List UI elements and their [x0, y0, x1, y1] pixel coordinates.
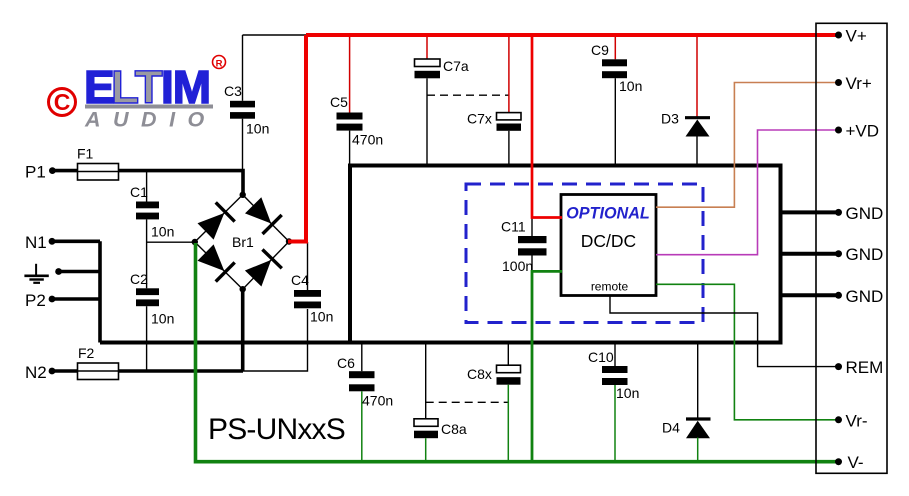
- wire orange Vr+: [656, 83, 839, 208]
- svg-text:C9: C9: [591, 42, 609, 58]
- capacitor C8x: [467, 343, 521, 461]
- svg-text:C5: C5: [330, 94, 348, 110]
- terminal GND 1: [835, 209, 842, 216]
- svg-text:V+: V+: [846, 27, 867, 46]
- logo ELTIM AUDIO: [49, 56, 226, 132]
- wire ground to rail: [59, 270, 100, 274]
- node bridge bottom: [240, 286, 246, 292]
- svg-text:C11: C11: [501, 219, 526, 235]
- wire P1 to F1: [52, 169, 78, 173]
- svg-text:D3: D3: [661, 111, 679, 127]
- svg-text:Vr-: Vr-: [846, 412, 868, 431]
- gnd bus horizontal: [100, 341, 782, 345]
- capacitor C4: [291, 242, 333, 325]
- connector block: [816, 23, 887, 473]
- capacitor C2: [130, 271, 174, 371]
- wire remote to REM: [610, 296, 839, 367]
- svg-text:D4: D4: [662, 420, 680, 436]
- svg-text:10n: 10n: [151, 311, 174, 327]
- terminal V+: [835, 32, 842, 39]
- fuse F1: [77, 146, 119, 181]
- svg-text:N1: N1: [25, 233, 47, 252]
- svg-text:P1: P1: [25, 163, 46, 182]
- svg-text:10n: 10n: [246, 121, 269, 137]
- node bridge left: [192, 239, 198, 245]
- svg-text:GND: GND: [846, 204, 884, 223]
- svg-text:C10: C10: [588, 349, 614, 365]
- svg-text:C8a: C8a: [441, 421, 467, 437]
- capacitor C8a: [414, 343, 467, 461]
- node bridge top: [240, 192, 246, 198]
- module box U1: [350, 166, 781, 343]
- svg-text:10n: 10n: [151, 224, 174, 240]
- wire N1 to gnd rail: [52, 240, 100, 244]
- node N1 dot: [49, 238, 56, 245]
- node bridge right: [286, 238, 292, 244]
- svg-text:F1: F1: [77, 146, 94, 162]
- svg-text:C6: C6: [337, 355, 355, 371]
- svg-text:C2: C2: [130, 271, 148, 287]
- svg-text:C1: C1: [130, 184, 148, 200]
- svg-text:10n: 10n: [616, 385, 639, 401]
- wire C3 top to V+ bus: [243, 34, 307, 36]
- diode D3: [661, 35, 710, 166]
- svg-text:GND: GND: [846, 287, 884, 306]
- svg-text:remote: remote: [591, 280, 629, 294]
- svg-text:470n: 470n: [352, 132, 383, 148]
- wire V- bus green: [196, 243, 839, 462]
- terminal GND 3: [835, 292, 842, 299]
- wire green C11 to DC/DC and down: [532, 271, 562, 461]
- terminal +VD: [835, 127, 842, 134]
- terminal Vr+: [835, 79, 842, 86]
- wire GND stub 1: [780, 210, 839, 214]
- svg-text:100n: 100n: [502, 258, 533, 274]
- svg-text:REM: REM: [846, 358, 884, 377]
- wire GND stub 2: [780, 252, 839, 256]
- svg-text:R: R: [216, 59, 223, 70]
- wire V+ riser red: [304, 35, 308, 242]
- svg-text:C: C: [54, 89, 71, 115]
- svg-text:C7x: C7x: [467, 111, 492, 127]
- node N2 dot: [49, 368, 56, 375]
- node P1 dot: [49, 167, 56, 174]
- dc/dc module box: [561, 195, 656, 296]
- wire P2 to rail: [52, 297, 100, 301]
- diode D4: [662, 343, 711, 461]
- svg-text:GND: GND: [846, 245, 884, 264]
- node ground dot: [55, 268, 62, 275]
- fuse F2: [78, 345, 119, 380]
- wire dashed C8a-C8x option: [426, 401, 508, 403]
- bridge Br1: [195, 195, 289, 289]
- wire F1 to bridge top: [119, 171, 244, 194]
- wire N2 thin to C4: [243, 309, 308, 371]
- wire C1/C2 tee to bridge left node: [147, 241, 195, 243]
- wire bridge bottom to N2: [241, 288, 245, 371]
- svg-text:Br1: Br1: [232, 234, 254, 250]
- wire magenta +VD: [656, 130, 839, 255]
- capacitor C3: [224, 35, 269, 170]
- svg-text:C4: C4: [291, 272, 309, 288]
- wire N2 to F2: [52, 369, 78, 373]
- ground: [24, 264, 48, 283]
- capacitor C7x: [467, 35, 521, 165]
- svg-text:10n: 10n: [619, 78, 642, 94]
- wire F2 to bridge bottom: [119, 369, 244, 373]
- terminal V-: [835, 458, 842, 465]
- capacitor C5: [330, 35, 383, 166]
- svg-text:PS-UNxxS: PS-UNxxS: [208, 413, 345, 446]
- optional block dashed box: [466, 184, 703, 323]
- wire bridge right to riser red: [288, 240, 308, 244]
- wire gnd rail vertical: [98, 241, 102, 342]
- wire green Vr-: [656, 284, 839, 420]
- svg-text:C3: C3: [224, 83, 242, 99]
- svg-text:C8x: C8x: [467, 366, 492, 382]
- svg-text:C7a: C7a: [443, 58, 469, 74]
- svg-text:F2: F2: [78, 345, 95, 361]
- terminal Vr-: [835, 416, 842, 423]
- wire GND stub 3: [780, 293, 839, 297]
- wire red drop to C11/DCDC: [532, 35, 562, 218]
- svg-text:P2: P2: [25, 291, 46, 310]
- capacitor C10: [588, 343, 639, 461]
- svg-text:N2: N2: [25, 363, 47, 382]
- svg-text:V-: V-: [848, 453, 864, 472]
- terminal REM: [835, 363, 842, 370]
- wire V+ bus red: [306, 33, 839, 37]
- svg-text:Vr+: Vr+: [846, 74, 872, 93]
- capacitor C7a: [415, 35, 469, 165]
- terminal GND 2: [835, 250, 842, 257]
- wire dashed C7a-C7x option: [427, 94, 509, 96]
- capacitor C9: [591, 35, 642, 165]
- svg-text:10n: 10n: [310, 309, 333, 325]
- svg-text:AUDIO: AUDIO: [84, 108, 217, 132]
- capacitor C11: [501, 218, 547, 275]
- svg-text:DC/DC: DC/DC: [581, 231, 636, 251]
- svg-text:OPTIONAL: OPTIONAL: [566, 205, 650, 223]
- node P2 dot: [49, 296, 56, 303]
- svg-text:+VD: +VD: [846, 122, 880, 141]
- capacitor C6: [337, 343, 393, 461]
- capacitor C1: [130, 171, 174, 289]
- svg-text:470n: 470n: [362, 393, 393, 409]
